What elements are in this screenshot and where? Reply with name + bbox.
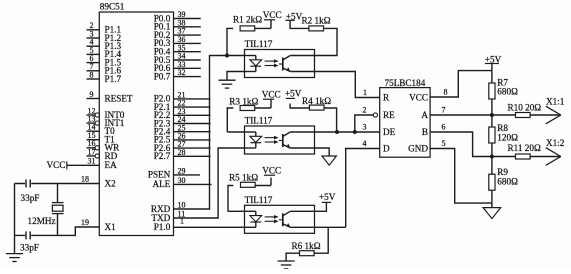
svg-text:R11 20Ω: R11 20Ω [508,143,541,153]
svg-text:R1 2kΩ: R1 2kΩ [233,15,262,25]
svg-text:RE: RE [383,110,395,120]
junction R4/DE node [335,130,339,134]
svg-text:X1:1: X1:1 [546,97,565,107]
pin 16 WR [87,139,121,152]
resistor R4 wiring [290,104,337,133]
svg-text:8: 8 [90,70,94,79]
svg-text:D: D [383,143,390,153]
pin 19 X1 [80,218,116,232]
resistor R6 wiring [286,227,328,261]
junction B node [490,155,494,159]
wire R10 to connector [530,114,561,116]
pin 17 RD [87,147,118,160]
pin 5 P1.4 [87,46,122,59]
capacitor C2 33pF [20,231,39,252]
svg-text:X1: X1 [105,222,117,232]
resistor R1 wiring [227,20,271,56]
svg-text:33pF: 33pF [21,193,40,203]
pin 6 B wire to X1:2 [430,123,515,157]
resistor R8 body [489,127,495,143]
svg-text:PSEN: PSEN [148,170,171,180]
svg-text:P1.0: P1.0 [154,222,171,232]
wire X1 to crystal network [15,227,81,235]
wire B node to R9 [491,157,493,175]
svg-text:30: 30 [178,176,186,185]
IC U1 89C51 body [99,12,173,236]
svg-text:10: 10 [178,201,186,210]
svg-text:75LBC184: 75LBC184 [385,78,426,88]
svg-text:+5V: +5V [285,88,302,98]
svg-text:P0.7: P0.7 [154,71,171,81]
connector X1:1 [546,97,565,124]
wire TXD to optocoupler 2 cathode [174,148,245,218]
pin 3 DE wire from optocoupler 2 collector [315,123,380,132]
svg-text:EA: EA [105,160,118,170]
pin 34 P0.5 [154,52,201,65]
resistor R1 body [240,26,255,31]
optocoupler U3 body [245,126,315,154]
svg-text:P1.7: P1.7 [105,74,122,84]
crystal Y1 12MHz [28,184,64,236]
pin 4 P1.3 [87,38,122,51]
pin 32 P0.7 [154,68,201,81]
pin 35 P0.4 [154,43,201,56]
wire RXD to optocoupler 1 anode [174,56,245,210]
wire R9 to ground [491,190,493,207]
svg-text:89C51: 89C51 [100,1,125,11]
pin 23 P2.2 [154,107,211,120]
resistor R5 wiring [228,178,271,212]
pin 13 INT1 [87,115,125,128]
pin 3 P1.2 [87,29,122,42]
svg-text:VCC: VCC [409,92,428,102]
optocoupler U4 phototransistor [279,211,315,227]
pin 36 P0.3 [154,35,201,48]
svg-text:X2: X2 [105,178,117,188]
pin 39 P0.0 [154,10,201,23]
svg-text:R6 1kΩ: R6 1kΩ [292,241,321,251]
pin 10 RXD label [151,201,186,214]
wire optocoupler 1 emitter to 75LBC184 R pin [315,72,380,98]
pin 1 P1.0 label [154,216,184,232]
resistor R8 label [497,123,518,142]
svg-text:29: 29 [178,167,186,176]
net +5V for R2 [286,11,303,21]
wire R7 to A node [491,99,493,115]
pin 15 T1 [87,131,116,144]
optocoupler U3 phototransistor [279,132,315,148]
svg-text:28: 28 [178,148,186,157]
resistor R2 wiring [290,20,337,55]
net +5V for optocoupler 3 collector [319,192,336,202]
pin 28 P2.7 [154,148,211,161]
pin 12 INT0 [87,106,125,119]
pin 27 P2.6 [154,140,211,153]
resistor R6 body [300,251,315,256]
pin 21 P2.0 [154,91,211,104]
net VCC for R3 [262,89,281,99]
svg-text:9: 9 [90,90,94,99]
svg-text:R10 20Ω: R10 20Ω [508,103,542,113]
pin 33 P0.6 [154,60,201,73]
svg-text:R5 1kΩ: R5 1kΩ [229,173,258,183]
IC U5 75LBC184 body [380,88,430,158]
net VCC for R5 [262,166,281,176]
pin 11 TXD label [151,210,185,223]
wire R3 to optocoupler 2 anode [227,131,244,133]
svg-text:32: 32 [178,68,186,77]
resistor R3 wiring [227,100,271,132]
wire optocoupler 2 emitter to ground [315,148,330,156]
svg-text:4: 4 [363,139,367,148]
svg-text:1: 1 [363,88,367,97]
pin 9 RESET [87,90,133,103]
optocoupler U4 body [245,205,315,233]
wire +5V rail [491,64,493,84]
pin 25 P2.4 [154,123,211,136]
svg-text:680Ω: 680Ω [497,176,518,186]
svg-text:VCC: VCC [47,160,66,170]
pin 26 P2.5 [154,132,211,145]
wire P1.0 to optocoupler 3 cathode [174,226,245,228]
svg-text:TIL117: TIL117 [245,116,273,126]
pin 37 P0.2 [154,27,201,40]
svg-text:12MHz: 12MHz [28,216,56,226]
optocoupler U4 LED [245,211,262,227]
wire A node to R8 [491,115,493,127]
svg-text:120Ω: 120Ω [497,133,518,143]
svg-text:VCC: VCC [263,10,282,20]
resistor R9 label [497,167,518,186]
ground G2 [218,79,235,81]
junction A node [490,113,494,117]
pin 30 ALE [152,176,211,189]
ground G1 [6,253,23,255]
optocoupler U3 LED [245,132,262,148]
svg-text:B: B [422,127,428,137]
optocoupler U2 light arrows [265,59,279,67]
net VCC at EA pin [47,160,67,170]
resistor R7 label [497,77,518,96]
svg-text:R2 1kΩ: R2 1kΩ [302,15,331,25]
svg-text:18: 18 [81,175,89,184]
pin 22 P2.1 [154,99,211,112]
pin 38 P0.1 [154,18,201,31]
svg-text:8: 8 [444,88,448,97]
wire optocoupler 3 emitter [315,226,346,228]
pin 5 GND wire [430,139,492,203]
pin 6 P1.5 [87,54,122,67]
resistor R9 body [489,174,495,190]
pin 8 P1.7 [87,70,122,83]
net +5V right [485,54,502,64]
svg-text:+5V: +5V [319,192,336,202]
resistor R7 body [489,83,495,99]
svg-text:P2.7: P2.7 [154,151,171,161]
junction RXD/R1 node [225,54,229,58]
svg-text:680Ω: 680Ω [497,87,518,97]
wire R8 to B node [491,143,493,157]
svg-text:5: 5 [442,139,446,148]
svg-text:ALE: ALE [152,179,170,189]
optocoupler U3 light arrows [265,136,279,144]
svg-text:TIL117: TIL117 [245,39,273,49]
svg-text:31: 31 [88,157,96,166]
wire optocoupler 1 cathode to ground [227,72,245,81]
ground G4 [278,260,295,262]
svg-text:7: 7 [442,106,446,115]
optocoupler U2 phototransistor [279,56,315,72]
svg-text:RESET: RESET [105,93,133,103]
svg-text:A: A [421,110,428,120]
capacitor C1 33pF [21,179,40,203]
connector X1:2 [546,138,565,165]
pin 2 RE wire with bubble to DE node [355,106,378,132]
pin 24 P2.3 [154,115,211,128]
junction RE/DE node [353,130,357,134]
wire optocoupler 3 collector to +5V [315,202,327,211]
net VCC for R1 [263,10,282,20]
optocoupler U2 LED [245,56,262,72]
svg-text:VCC: VCC [262,89,281,99]
wire X2 to crystal network [15,183,76,185]
pin 8 VCC wire to +5V [430,71,492,97]
resistor R5 body [241,182,256,187]
svg-text:2: 2 [363,106,367,115]
pin 4 D wire to optocoupler 3 emitter [346,139,380,227]
pin 2 P1.1 [87,21,122,34]
wire R11 to connector [530,156,561,158]
svg-text:33pF: 33pF [20,243,39,253]
ground G5 triangle [483,208,501,219]
svg-text:VCC: VCC [262,166,281,176]
resistor R3 body [240,106,255,111]
optocoupler U2 body [245,50,315,78]
svg-text:GND: GND [408,143,428,153]
svg-text:3: 3 [363,123,367,132]
svg-text:R: R [383,92,390,102]
resistor R10 body [516,113,531,118]
ground G3 triangle [322,156,336,165]
svg-text:X1:2: X1:2 [546,138,565,148]
net +5V for R4 [285,88,302,98]
svg-text:DE: DE [383,127,396,137]
svg-text:17: 17 [88,147,96,156]
optocoupler U4 light arrows [265,215,279,223]
pin 7 A wire to X1:1 [430,106,515,115]
resistor R11 body [516,154,531,159]
pin 18 X2 [75,175,116,189]
resistor R2 body [309,26,324,31]
pin 31 EA [67,157,117,170]
pin 7 P1.6 [87,62,122,75]
wire oscillator ground rail [14,184,16,254]
pin 29 PSEN [148,167,200,180]
svg-text:TIL117: TIL117 [245,195,273,205]
wire R5 to optocoupler 3 anode [228,210,245,212]
pin 14 T0 [87,123,116,136]
svg-text:1: 1 [180,216,184,225]
svg-text:6: 6 [442,123,446,132]
resistor R4 body [309,105,324,110]
svg-text:19: 19 [81,218,89,227]
